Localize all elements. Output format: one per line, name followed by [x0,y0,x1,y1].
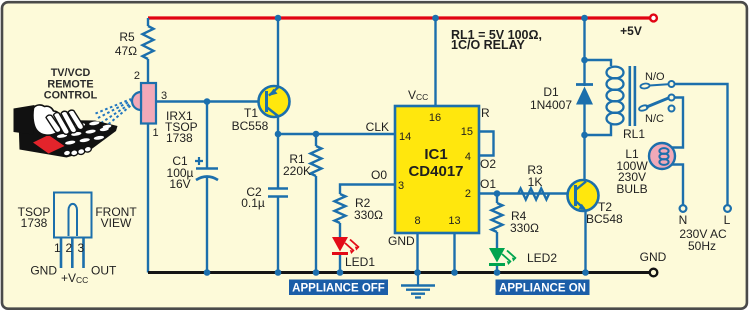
node gnd: T2 [582,269,589,276]
wire: LED1 to gnd rail [339,255,341,273]
svg-text:1738: 1738 [166,131,193,145]
wire: R1 bottom to gnd rail [315,176,317,273]
svg-text:14: 14 [399,131,411,143]
svg-text:1738: 1738 [21,216,48,230]
svg-text:1N4007: 1N4007 [530,98,572,112]
junction on rail (Vcc) [432,15,439,22]
svg-text:1K: 1K [528,175,543,189]
T2 base bar [574,185,577,206]
label box APPLIANCE OFF [289,280,388,296]
wire: LED2 to gnd rail [496,266,498,273]
node gnd: C2 [275,269,282,276]
T2 collector diagonal [576,182,587,191]
svg-text:CLK: CLK [366,120,389,134]
IR sensor IRX1 body [141,83,156,124]
relay coil loops [607,67,624,125]
svg-text:APPLIANCE ON: APPLIANCE ON [499,283,586,295]
relay N/O fixed contact [640,83,650,89]
node C1 top junction [204,98,211,105]
ground symbol [417,274,419,285]
svg-text:16: 16 [429,112,441,124]
transistor T2 BC548 [568,180,599,211]
capacitor C1 wires [206,102,208,169]
svg-text:T1: T1 [244,106,258,120]
terminal N [680,205,687,212]
wire: IC Vcc to rail [434,18,436,106]
node relay top branch [581,57,588,64]
svg-text:GND: GND [388,234,415,248]
svg-text:16V: 16V [169,177,190,191]
svg-text:O0: O0 [371,168,387,182]
remote control body [19,120,118,158]
svg-text:4: 4 [465,151,471,163]
wire: R2 to LED1 [339,223,341,237]
wire: CLK line to IC pin14 [278,133,395,135]
wire: +5V red rail [148,16,650,19]
wire: T1 emitter to rail [277,18,279,86]
wire: down to T2 collector [583,135,585,181]
wire: reset loop pin15 to pin4 [479,132,494,156]
relay N/O terminal [669,81,675,87]
svg-text:50Hz: 50Hz [688,239,716,253]
TSOP front view dome [69,204,78,236]
svg-text:N: N [679,213,688,227]
svg-text:1C/O RELAY: 1C/O RELAY [451,38,526,52]
svg-text:330Ω: 330Ω [354,208,383,222]
svg-text:N/C: N/C [645,113,664,125]
node gnd: pin8 [414,269,421,276]
svg-text:BC558: BC558 [232,119,269,133]
fingers wrapped under remote [63,146,92,157]
IR rays (dashed) [96,99,133,128]
relay RL1 coil top wire [585,60,612,66]
svg-text:+5V: +5V [620,24,642,38]
wire: N/O to L terminal [675,84,728,205]
relay coil bottom wire [585,123,612,135]
resistor R3 [518,189,549,200]
svg-text:8: 8 [414,215,420,227]
fingers over keys [46,110,84,134]
wire: C2 to gnd rail [277,197,279,273]
svg-text:CD4017: CD4017 [408,163,463,180]
node: +5V terminal [650,15,657,22]
svg-text:L: L [724,213,731,227]
diode D1 1N4007 [576,83,593,86]
resistor R5 [143,26,154,59]
bulb filament coil [659,148,668,165]
wire: R1 top [315,134,317,146]
wire: R5 to IRX1 pin2 [147,59,149,83]
node R4 junction [494,190,501,197]
junction on rail (T1) [275,15,282,22]
svg-text:13: 13 [448,215,460,227]
remote keys [57,121,112,145]
svg-text:3: 3 [78,241,85,255]
svg-text:R: R [481,106,490,120]
svg-text:GND: GND [640,250,667,264]
svg-text:15: 15 [461,126,473,138]
svg-text:RL1: RL1 [623,127,645,141]
IC1 CD4017 body [395,106,479,233]
terminal GND [650,269,658,277]
svg-text:LED2: LED2 [527,251,557,265]
wire: T1 collector down to CLK node [277,116,279,134]
node relay bottom branch [581,132,588,139]
capacitor C1 top plate [196,167,218,170]
resistor R2 [335,194,346,223]
wire: O0 from pin3 to R2 [340,185,395,195]
C1 plus sign [195,157,203,165]
T2 emitter diagonal with arrow (NPN out) [576,201,585,209]
wire: IC pin13 to gnd [453,233,455,273]
svg-text:0.1µ: 0.1µ [241,196,265,210]
wire: IC pin8 to gnd [416,233,418,273]
svg-text:D1: D1 [543,85,559,99]
svg-text:47Ω: 47Ω [115,44,137,58]
hand (back of palm) [33,105,60,135]
node gnd: LED1 [337,269,344,276]
svg-text:330Ω: 330Ω [510,221,539,235]
wire: O1 from pin2 to T2 base [479,192,575,194]
node gnd: LED2 [494,269,501,276]
node R1 junction [313,131,320,138]
relay N/C terminal [669,106,675,112]
svg-text:GND: GND [30,264,57,278]
svg-text:2: 2 [465,188,471,200]
capacitor C2 bottom plate [268,195,288,198]
svg-text:R5: R5 [119,30,135,44]
transistor T1 BC558 [259,86,290,117]
svg-text:1: 1 [153,127,159,139]
remote red button [33,135,65,154]
svg-text:N/O: N/O [645,71,665,83]
svg-text:220K: 220K [283,164,311,178]
gnd rail (black) [148,271,649,274]
wire: D1/T2 collector vertical [583,60,585,80]
svg-text:3: 3 [161,90,167,102]
svg-text:BC548: BC548 [586,212,623,226]
LED1 (red) [332,237,348,252]
T1 emitter diagonal with arrow (PNP into base) [269,87,279,96]
svg-text:TV/VCD: TV/VCD [51,67,91,79]
lamp L1 bulb [649,143,675,169]
node gnd: R1 [313,269,320,276]
node gnd: pin13 [451,269,458,276]
wire: R4 to LED2 [496,232,498,248]
wire: rail to R5 [147,18,149,26]
svg-text:2: 2 [66,241,73,255]
TSOP front view box [54,193,92,238]
LED2 (green) [489,248,505,263]
T1 collector diagonal [267,107,279,116]
svg-text:BULB: BULB [616,182,647,196]
junction on rail (D1) [581,15,588,22]
capacitor C2 top plate [268,187,288,190]
capacitor C1 bottom plate (curved) [196,177,218,181]
svg-text:APPLIANCE OFF: APPLIANCE OFF [292,283,385,295]
wire: IRX1 out to T1 base [156,100,266,102]
resistor R4 [492,203,503,232]
node T1 collector junction [275,131,282,138]
svg-text:3: 3 [398,180,404,192]
sleeve cuff [14,105,35,135]
wire: D1 branch to rail [583,18,585,60]
relay pole terminal [669,95,675,101]
wire: IRX1 pin1 down to gnd rail [147,124,149,273]
TSOP pin 2 [71,238,74,269]
node gnd: C1 [204,269,211,276]
svg-text:LED1: LED1 [345,255,375,269]
TSOP pin 3 [82,238,85,269]
label box APPLIANCE ON [496,280,590,296]
svg-text:CONTROL: CONTROL [44,90,98,102]
wire: bulb bottom to N terminal [672,165,683,206]
svg-text:1: 1 [54,241,61,255]
wire: T2 emitter to gnd rail [584,210,586,273]
wire: pole to bulb top [672,98,683,148]
relay armature [638,104,648,111]
resistor R1 [311,146,322,176]
wire: R4 top [496,194,498,204]
svg-text:REMOTE: REMOTE [47,78,93,90]
svg-text:IC1: IC1 [424,146,447,163]
wire: C2 branch from CLK node down [277,134,279,188]
terminal L [724,205,731,212]
svg-text:O2: O2 [480,157,496,171]
svg-text:O1: O1 [480,177,496,191]
relay core bars [629,66,632,126]
svg-text:2: 2 [134,70,140,82]
svg-text:VIEW: VIEW [101,216,132,230]
svg-text:OUT: OUT [91,264,117,278]
IRX1 dome [132,92,141,110]
TSOP pin 1 [60,238,63,269]
T1 base bar [265,91,268,112]
